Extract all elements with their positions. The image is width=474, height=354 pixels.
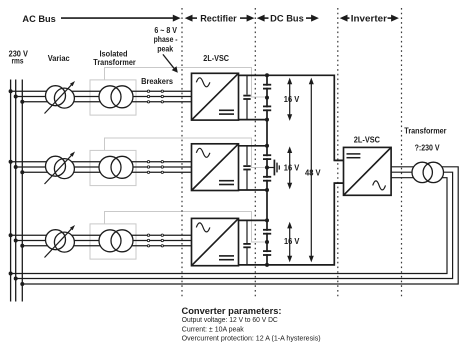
svg-text:Variac: Variac [48, 53, 70, 63]
svg-text:Overcurrent protection: 12 A (: Overcurrent protection: 12 A (1-A hyster… [182, 334, 321, 343]
svg-text:2L-VSC: 2L-VSC [354, 134, 380, 144]
dc-link capacitor C2 row 2 [243, 146, 250, 190]
svg-text:Breakers: Breakers [141, 76, 173, 86]
isolated transformer row 3 [99, 230, 133, 252]
inverter 2L-VSC U4 [344, 147, 392, 195]
isolated transformer row 2 [99, 156, 133, 178]
svg-text:peak: peak [157, 44, 173, 54]
capacitor C6b plates [263, 251, 271, 255]
rectifier 2L-VSC U1 row 1 [192, 73, 239, 120]
breakers row 3 [147, 234, 163, 247]
midpoint ground [267, 160, 279, 176]
row 2 dc output bottom wire [239, 189, 268, 191]
breakers row 1 [147, 90, 163, 103]
svg-text:Current: ± 10A peak: Current: ± 10A peak [182, 325, 244, 334]
label 230 V rms [9, 48, 29, 65]
label DC Bus with span arrows [257, 15, 319, 22]
isolated transformer row 1 [99, 86, 133, 108]
svg-text:Transformer: Transformer [93, 57, 136, 67]
row 2 dc output top wire [239, 145, 268, 147]
dc-link capacitor C3 row 3 [243, 220, 250, 265]
svg-text:Transformer: Transformer [404, 125, 447, 135]
group outline row 3 (light gray) [105, 212, 268, 243]
row 1 bus tap junctions [9, 89, 25, 104]
group outline row 1 (light gray) [105, 68, 268, 98]
AC bus phase line B [15, 80, 17, 302]
section divider dotted line 2 (Rectifier / DC Bus) [254, 8, 256, 297]
rectifier 2L-VSC U2 row 2 [192, 144, 239, 191]
svg-text:Output voltage: 12 V to 60 V D: Output voltage: 12 V to 60 V DC [182, 315, 279, 324]
transformer group box row 1 (gray) [90, 80, 136, 115]
row 1 dc output top wire [239, 74, 268, 76]
svg-text:Inverter: Inverter [351, 13, 388, 23]
variac row 2 [46, 156, 75, 178]
label Inverter with span arrows [340, 15, 399, 22]
AC bus phase line A [10, 80, 12, 302]
row 1 feeder wires [11, 91, 192, 102]
transformer group box row 2 (gray) [90, 150, 136, 185]
AC bus phase line C [21, 80, 23, 302]
section divider dotted line 1 (AC Bus / Rectifier) [181, 8, 183, 297]
capacitor C5b gap [264, 178, 270, 180]
svg-text:?:230 V: ?:230 V [415, 142, 440, 152]
capacitor C6a gap [264, 231, 270, 233]
variac row 3 arrow [45, 225, 76, 258]
capacitor C4b plates [263, 106, 271, 110]
16 V measure arrow row 2 [287, 146, 292, 189]
inverter ac output wires and return loop [11, 167, 459, 284]
AC Bus span arrow [61, 15, 181, 22]
annotation leader arrow to breakers [163, 54, 178, 72]
output transformer [412, 162, 443, 182]
variac row 3 [46, 230, 75, 252]
return loop junctions on ac bus [9, 272, 25, 287]
transformer group box row 3 (gray) [90, 224, 136, 259]
capacitor C6b gap [264, 252, 270, 254]
capacitor C4b gap [264, 107, 270, 109]
label Isolated Transformer [93, 48, 136, 67]
annotation 6 ~ 8 V phase - peak [154, 25, 178, 54]
svg-text:AC Bus: AC Bus [22, 14, 55, 24]
row 3 feeder wires [11, 235, 192, 246]
capacitor C5a gap [264, 156, 270, 158]
svg-text:16 V: 16 V [284, 163, 300, 172]
row 3 bus tap junctions [9, 233, 25, 248]
svg-text:16 V: 16 V [284, 237, 300, 246]
inverter box input stubs redrawn over dotted line [334, 160, 343, 183]
dc series-capacitor rail [266, 75, 268, 265]
svg-text:DC Bus: DC Bus [270, 13, 304, 23]
capacitor C5b plates [263, 177, 271, 181]
label Rectifier with span arrows [185, 15, 255, 22]
row 1 dc output bottom wire [239, 119, 268, 121]
row 2 feeder wires [11, 162, 192, 173]
rectifier 2L-VSC U3 row 3 [192, 218, 239, 265]
row 3 dc output top wire [239, 219, 268, 221]
breakers row 2 [147, 161, 163, 174]
svg-text:Rectifier: Rectifier [200, 13, 237, 23]
section divider dotted line 4 (Inverter end) [401, 8, 403, 297]
variac row 1 [46, 86, 75, 108]
svg-text:rms: rms [12, 55, 24, 65]
group outline row 2 (light gray) [105, 138, 268, 168]
capacitor C4a plates [263, 85, 271, 89]
16 V measure arrow row 3 [287, 222, 292, 263]
rail junction dots [265, 73, 269, 267]
variac row 1 arrow [45, 81, 76, 114]
dc-link capacitor C1 row 1 [243, 75, 250, 119]
16 V measure arrow row 1 [287, 78, 292, 121]
svg-text:2L-VSC: 2L-VSC [203, 53, 229, 63]
svg-text:16 V: 16 V [284, 95, 300, 104]
capacitor C5a plates [263, 155, 271, 159]
dc negative link to inverter [239, 183, 344, 265]
svg-text:phase -: phase - [154, 34, 178, 44]
dc positive link to inverter [239, 75, 344, 160]
variac row 2 arrow [45, 152, 76, 185]
section divider dotted line 3 (DC Bus / Inverter) [337, 8, 339, 297]
48 V measure arrow [309, 78, 314, 263]
capacitor C4a gap [264, 86, 270, 88]
svg-text:48 V: 48 V [305, 168, 321, 177]
capacitor C6a plates [263, 230, 271, 234]
row 2 bus tap junctions [9, 160, 25, 175]
